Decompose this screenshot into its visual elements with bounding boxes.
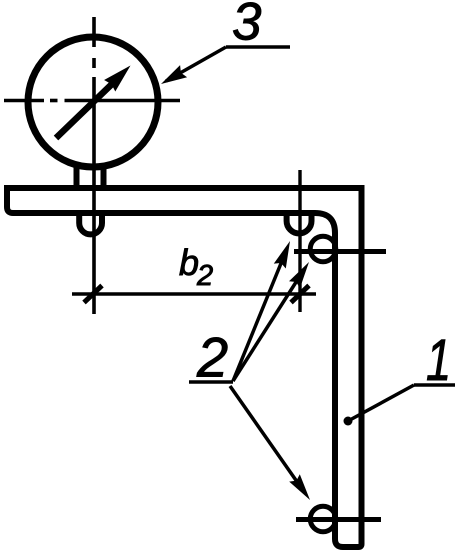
dial indicator U3 body (circle) — [28, 37, 158, 167]
label 2 underline — [189, 380, 233, 384]
label 1 leader dot — [344, 417, 353, 426]
dial indicator stem left line — [74, 163, 80, 189]
tick line through support 2c — [296, 517, 381, 522]
svg-text:2: 2 — [196, 326, 228, 389]
support button 2c at bottom of arm (circle) — [310, 506, 336, 532]
oblique tick left — [84, 286, 102, 303]
oblique tick right — [291, 286, 309, 303]
dial indicator stem right line — [101, 163, 107, 189]
leader A to stirrup 2a — [233, 256, 284, 381]
label 1 leader line — [348, 385, 414, 421]
support stirrup under dial stem — [79, 214, 102, 234]
label 3 leader line — [166, 47, 226, 81]
tick line through support 2b — [294, 249, 386, 254]
label 3 arrowhead — [161, 65, 187, 84]
support button 2b on vertical arm (circle) — [310, 236, 336, 262]
right extension line / centerline through corner support — [298, 170, 301, 312]
support stirrup 2a under blade near corner — [287, 214, 312, 233]
leader C to button 2c — [230, 386, 300, 486]
square/bracket body 1 (L-shaped outline) — [7, 188, 362, 547]
leader B to button 2b — [233, 279, 298, 381]
svg-text:2: 2 — [196, 260, 213, 292]
dial pointer arrowhead — [104, 66, 130, 92]
svg-text:3: 3 — [232, 0, 262, 52]
dial pointer shaft — [56, 84, 112, 138]
label 1 underline — [414, 383, 455, 387]
label 3 underline — [226, 45, 290, 49]
horizontal centerline of dial (dash-dot) — [4, 99, 180, 103]
dimension line b2 — [72, 292, 316, 295]
vertical centerline of dial / left extension line (dash-dot) — [92, 17, 96, 314]
